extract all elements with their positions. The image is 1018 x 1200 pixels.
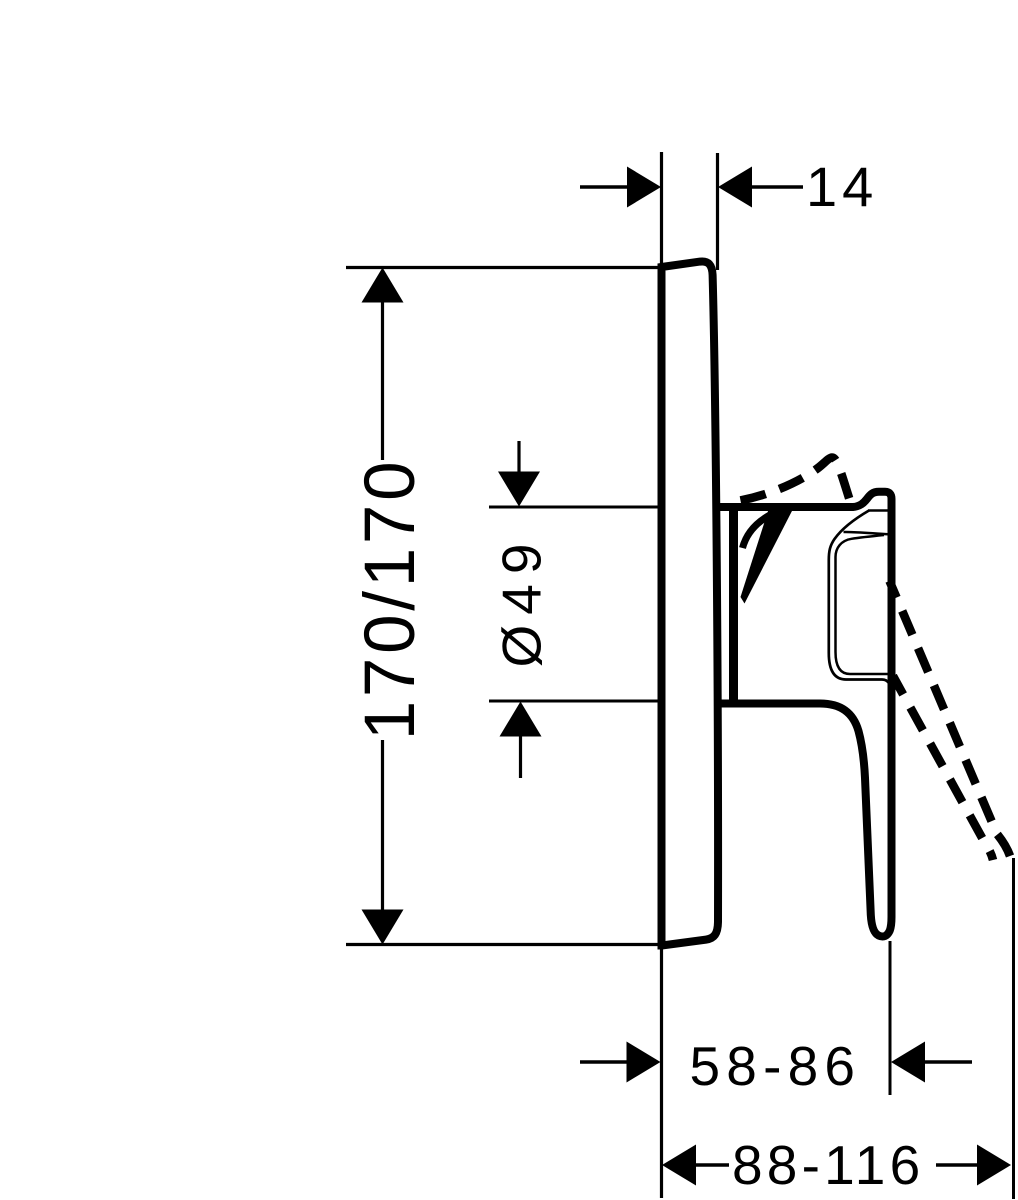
cap notch horizontal thin line [868, 509, 890, 512]
dim 170/170: vertical line lower segment [381, 740, 384, 911]
dim 88-116: left tail [696, 1163, 729, 1167]
extension line x=717.5 upper [716, 153, 719, 270]
svg-text:170/170: 170/170 [351, 458, 430, 741]
hood curve + socket outer line [829, 511, 890, 686]
dim 88-116: left arrowhead pointing left [662, 1145, 696, 1186]
svg-text:14: 14 [806, 155, 878, 218]
dim 88-116: right arrowhead pointing right [977, 1145, 1011, 1186]
dim 14: right tail [752, 185, 803, 189]
dim 58-86: right arrowhead [891, 1042, 925, 1083]
extension line cartridge bottom y=701 [489, 700, 658, 703]
dim Ø49: upper stem [517, 441, 520, 474]
extension line x=661.5 lower [660, 947, 663, 1198]
svg-text:Ø49: Ø49 [491, 534, 553, 668]
dim 58-86: left tail [580, 1060, 628, 1064]
wall plate (escutcheon, side profile) [662, 261, 719, 945]
extension line left of plate top (x=661.5 upper) [660, 152, 663, 265]
dim 88-116: right tail [936, 1163, 977, 1167]
extension line plate bottom horizontal y=944.5 [346, 943, 659, 946]
dashed blade back edge [893, 676, 993, 860]
extension line dashed tip x=1013.5 [1012, 858, 1015, 1199]
valve body + handle outline: bottom line, arm, tip, right edge, cap top, top line [716, 492, 892, 937]
dim Ø49: upper arrowhead pointing down [498, 472, 540, 507]
dim 14: left tail [580, 185, 628, 189]
extension line handle tip x=890 [889, 941, 892, 1095]
dim Ø49: lower stem [519, 734, 522, 778]
spout arc inside cartridge [743, 512, 778, 549]
svg-text:88-116: 88-116 [732, 1134, 924, 1196]
dim 14: left arrowhead [627, 167, 661, 208]
dim 58-86: right tail [925, 1060, 972, 1064]
extension line cartridge top y=507 [489, 506, 658, 509]
cartridge left edge [729, 505, 738, 703]
dashed blade front edge (emerging right of handle) [890, 581, 1011, 856]
socket top upper line [844, 532, 889, 534]
socket top lower line + inner wall [836, 535, 890, 674]
extension line plate top horizontal y=267.5 [346, 266, 660, 269]
dim 170/170: bottom arrowhead [362, 910, 404, 945]
dim 170/170: vertical line upper segment [381, 299, 384, 460]
dim 14: right arrowhead [718, 167, 752, 208]
svg-text:58-86: 58-86 [690, 1035, 862, 1097]
dim Ø49: lower arrowhead pointing up [500, 702, 542, 737]
dim 58-86: left arrowhead [627, 1042, 661, 1083]
dashed handle open position: upper lever [741, 458, 851, 502]
lever wedge inside cartridge [741, 508, 794, 604]
dim 170/170: top arrowhead [362, 268, 404, 303]
